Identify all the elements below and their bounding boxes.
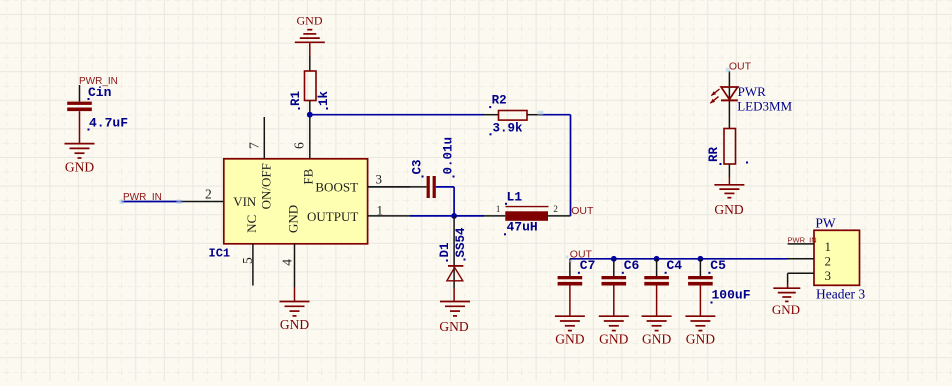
svg-text:6: 6 [292,142,307,149]
svg-text:NC: NC [244,215,259,233]
svg-text:IC1: IC1 [209,247,231,261]
svg-text:C3: C3 [410,159,424,174]
svg-text:LED3MM: LED3MM [737,99,792,114]
svg-text:2: 2 [825,254,832,269]
svg-text:OUTPUT: OUTPUT [307,209,358,224]
svg-text:R2: R2 [492,94,507,108]
svg-text:2: 2 [205,186,212,201]
svg-text:GND: GND [686,332,715,347]
svg-text:3: 3 [376,171,383,186]
svg-text:GND: GND [439,319,468,334]
svg-text:4.7uF: 4.7uF [89,116,128,131]
svg-text:C6: C6 [624,258,640,273]
svg-text:1k: 1k [317,90,331,106]
svg-text:C4: C4 [667,258,683,273]
svg-text:ON/OFF: ON/OFF [259,163,274,209]
svg-text:GND: GND [772,302,800,317]
svg-text:D1: D1 [438,242,452,257]
svg-text:R1: R1 [289,91,303,106]
svg-text:C5: C5 [710,258,726,273]
svg-text:GND: GND [599,332,628,347]
svg-text:1: 1 [377,202,384,217]
svg-text:PWR: PWR [738,84,767,99]
svg-text:SS54: SS54 [454,227,468,258]
svg-text:Cin: Cin [88,85,112,100]
svg-text:RR: RR [707,146,721,162]
svg-text:BOOST: BOOST [315,179,358,194]
svg-text:OUT: OUT [571,205,594,217]
svg-text:OUT: OUT [729,61,752,73]
svg-text:0.01u: 0.01u [441,137,455,175]
svg-text:Header 3: Header 3 [816,287,865,302]
svg-text:1: 1 [825,239,832,254]
svg-text:PW: PW [815,216,836,231]
svg-text:2: 2 [553,204,558,214]
svg-text:GND: GND [642,332,671,347]
svg-text:GND: GND [297,14,323,28]
svg-text:GND: GND [555,332,584,347]
svg-text:3: 3 [825,268,832,283]
svg-text:1: 1 [496,204,501,214]
svg-text:VIN: VIN [233,194,257,209]
svg-text:GND: GND [714,202,743,217]
svg-text:100uF: 100uF [712,288,751,303]
svg-text:L1: L1 [507,190,523,205]
svg-text:C7: C7 [580,258,596,273]
svg-text:4: 4 [280,259,295,266]
svg-text:FB: FB [301,168,316,184]
svg-text:GND: GND [280,317,309,332]
svg-text:7: 7 [247,142,262,149]
svg-text:GND: GND [286,205,301,233]
svg-text:5: 5 [240,257,255,264]
svg-text:GND: GND [65,160,94,175]
svg-text:47uH: 47uH [507,220,538,235]
svg-text:3.9k: 3.9k [493,122,524,136]
